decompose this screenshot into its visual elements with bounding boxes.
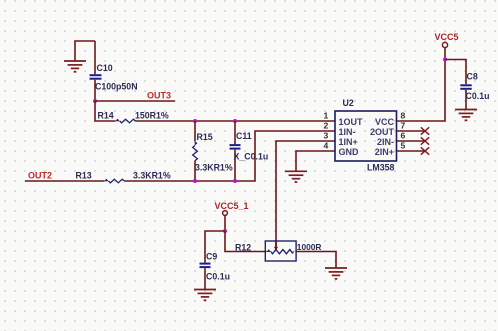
svg-text:C0.1u: C0.1u bbox=[206, 272, 230, 282]
resistor R15 bbox=[193, 121, 233, 181]
node junction C11 top bbox=[233, 119, 237, 123]
svg-text:LM358: LM358 bbox=[367, 162, 394, 172]
power port VCC5_1 bbox=[215, 201, 249, 231]
capacitor C11 bbox=[230, 121, 269, 181]
svg-text:1OUT: 1OUT bbox=[339, 117, 364, 127]
potentiometer R12 bbox=[235, 241, 321, 261]
svg-text:3.3KR1%: 3.3KR1% bbox=[133, 171, 171, 181]
svg-text:VCC: VCC bbox=[375, 117, 395, 127]
wire U2 pin 3 to R12 wiper bbox=[276, 141, 335, 250]
svg-text:1IN-: 1IN- bbox=[339, 127, 356, 137]
resistor R13 bbox=[76, 171, 171, 183]
svg-text:2: 2 bbox=[324, 121, 329, 131]
svg-text:3.3KR1%: 3.3KR1% bbox=[195, 162, 233, 172]
wire U2 pin 4 to ground bbox=[296, 151, 335, 171]
svg-text:C100p50N: C100p50N bbox=[95, 82, 138, 92]
net label OUT3 bbox=[95, 91, 175, 101]
node junction VCC5 bbox=[443, 58, 447, 62]
svg-text:1000R: 1000R bbox=[297, 242, 322, 252]
svg-text:GND: GND bbox=[339, 147, 360, 157]
wire node row to U2 pin 1 bbox=[195, 120, 335, 122]
pin 6 stub with no-connect X bbox=[397, 137, 430, 144]
svg-text:4: 4 bbox=[324, 141, 329, 151]
svg-text:2IN+: 2IN+ bbox=[375, 147, 394, 157]
net label OUT2 bbox=[25, 170, 104, 181]
svg-text:C9: C9 bbox=[206, 252, 217, 262]
svg-text:R13: R13 bbox=[76, 171, 92, 181]
svg-text:VCC5_1: VCC5_1 bbox=[215, 201, 249, 211]
svg-text:2IN-: 2IN- bbox=[377, 137, 394, 147]
svg-text:X_C0.1u: X_C0.1u bbox=[234, 151, 269, 161]
svg-text:1IN+: 1IN+ bbox=[339, 137, 358, 147]
resistor R14 bbox=[95, 101, 195, 123]
svg-text:R14: R14 bbox=[98, 110, 114, 120]
pin 7 stub with no-connect X bbox=[397, 127, 430, 134]
wire VCC5_1 to R12 bbox=[225, 231, 267, 252]
node OUT3 junction bbox=[93, 99, 97, 103]
capacitor C8 bbox=[445, 60, 489, 110]
svg-text:OUT2: OUT2 bbox=[28, 170, 52, 180]
node junction C11 bottom bbox=[233, 179, 237, 183]
wire R12 to ground bbox=[296, 252, 336, 268]
power port VCC5 bbox=[435, 32, 459, 60]
svg-text:C0.1u: C0.1u bbox=[466, 91, 490, 101]
node junction R15 bottom bbox=[193, 179, 197, 183]
ground (top-left) bbox=[64, 41, 95, 72]
svg-text:OUT3: OUT3 bbox=[147, 91, 171, 101]
svg-text:R12: R12 bbox=[235, 242, 251, 252]
svg-text:C11: C11 bbox=[236, 131, 252, 141]
svg-text:8: 8 bbox=[401, 111, 406, 121]
node junction R15 top bbox=[193, 119, 197, 123]
svg-text:6: 6 bbox=[401, 131, 406, 141]
ground (C9) bbox=[194, 290, 216, 301]
svg-text:1: 1 bbox=[324, 111, 329, 121]
ground (U2 GND pin) bbox=[285, 171, 307, 182]
wire bottom rail to U2 pin 2 bbox=[124, 131, 335, 181]
svg-text:VCC5: VCC5 bbox=[435, 32, 459, 42]
wire U2 pin 8 to VCC5 bbox=[397, 60, 446, 122]
svg-text:U2: U2 bbox=[343, 98, 354, 108]
capacitor C9 bbox=[200, 231, 230, 289]
node junction VCC5_1 bbox=[223, 229, 227, 233]
svg-text:R15: R15 bbox=[197, 132, 213, 142]
svg-text:2OUT: 2OUT bbox=[370, 127, 395, 137]
ground (C8) bbox=[455, 110, 477, 121]
svg-text:3: 3 bbox=[324, 131, 329, 141]
op-amp U2 bbox=[324, 98, 406, 172]
svg-text:C10: C10 bbox=[97, 63, 113, 73]
svg-text:5: 5 bbox=[401, 141, 406, 151]
capacitor C10 bbox=[90, 41, 138, 101]
pin 5 stub with no-connect X bbox=[397, 147, 430, 154]
svg-text:C8: C8 bbox=[467, 71, 478, 81]
svg-text:7: 7 bbox=[401, 121, 406, 131]
ground (R12) bbox=[325, 268, 347, 279]
svg-text:150R1%: 150R1% bbox=[135, 110, 169, 120]
